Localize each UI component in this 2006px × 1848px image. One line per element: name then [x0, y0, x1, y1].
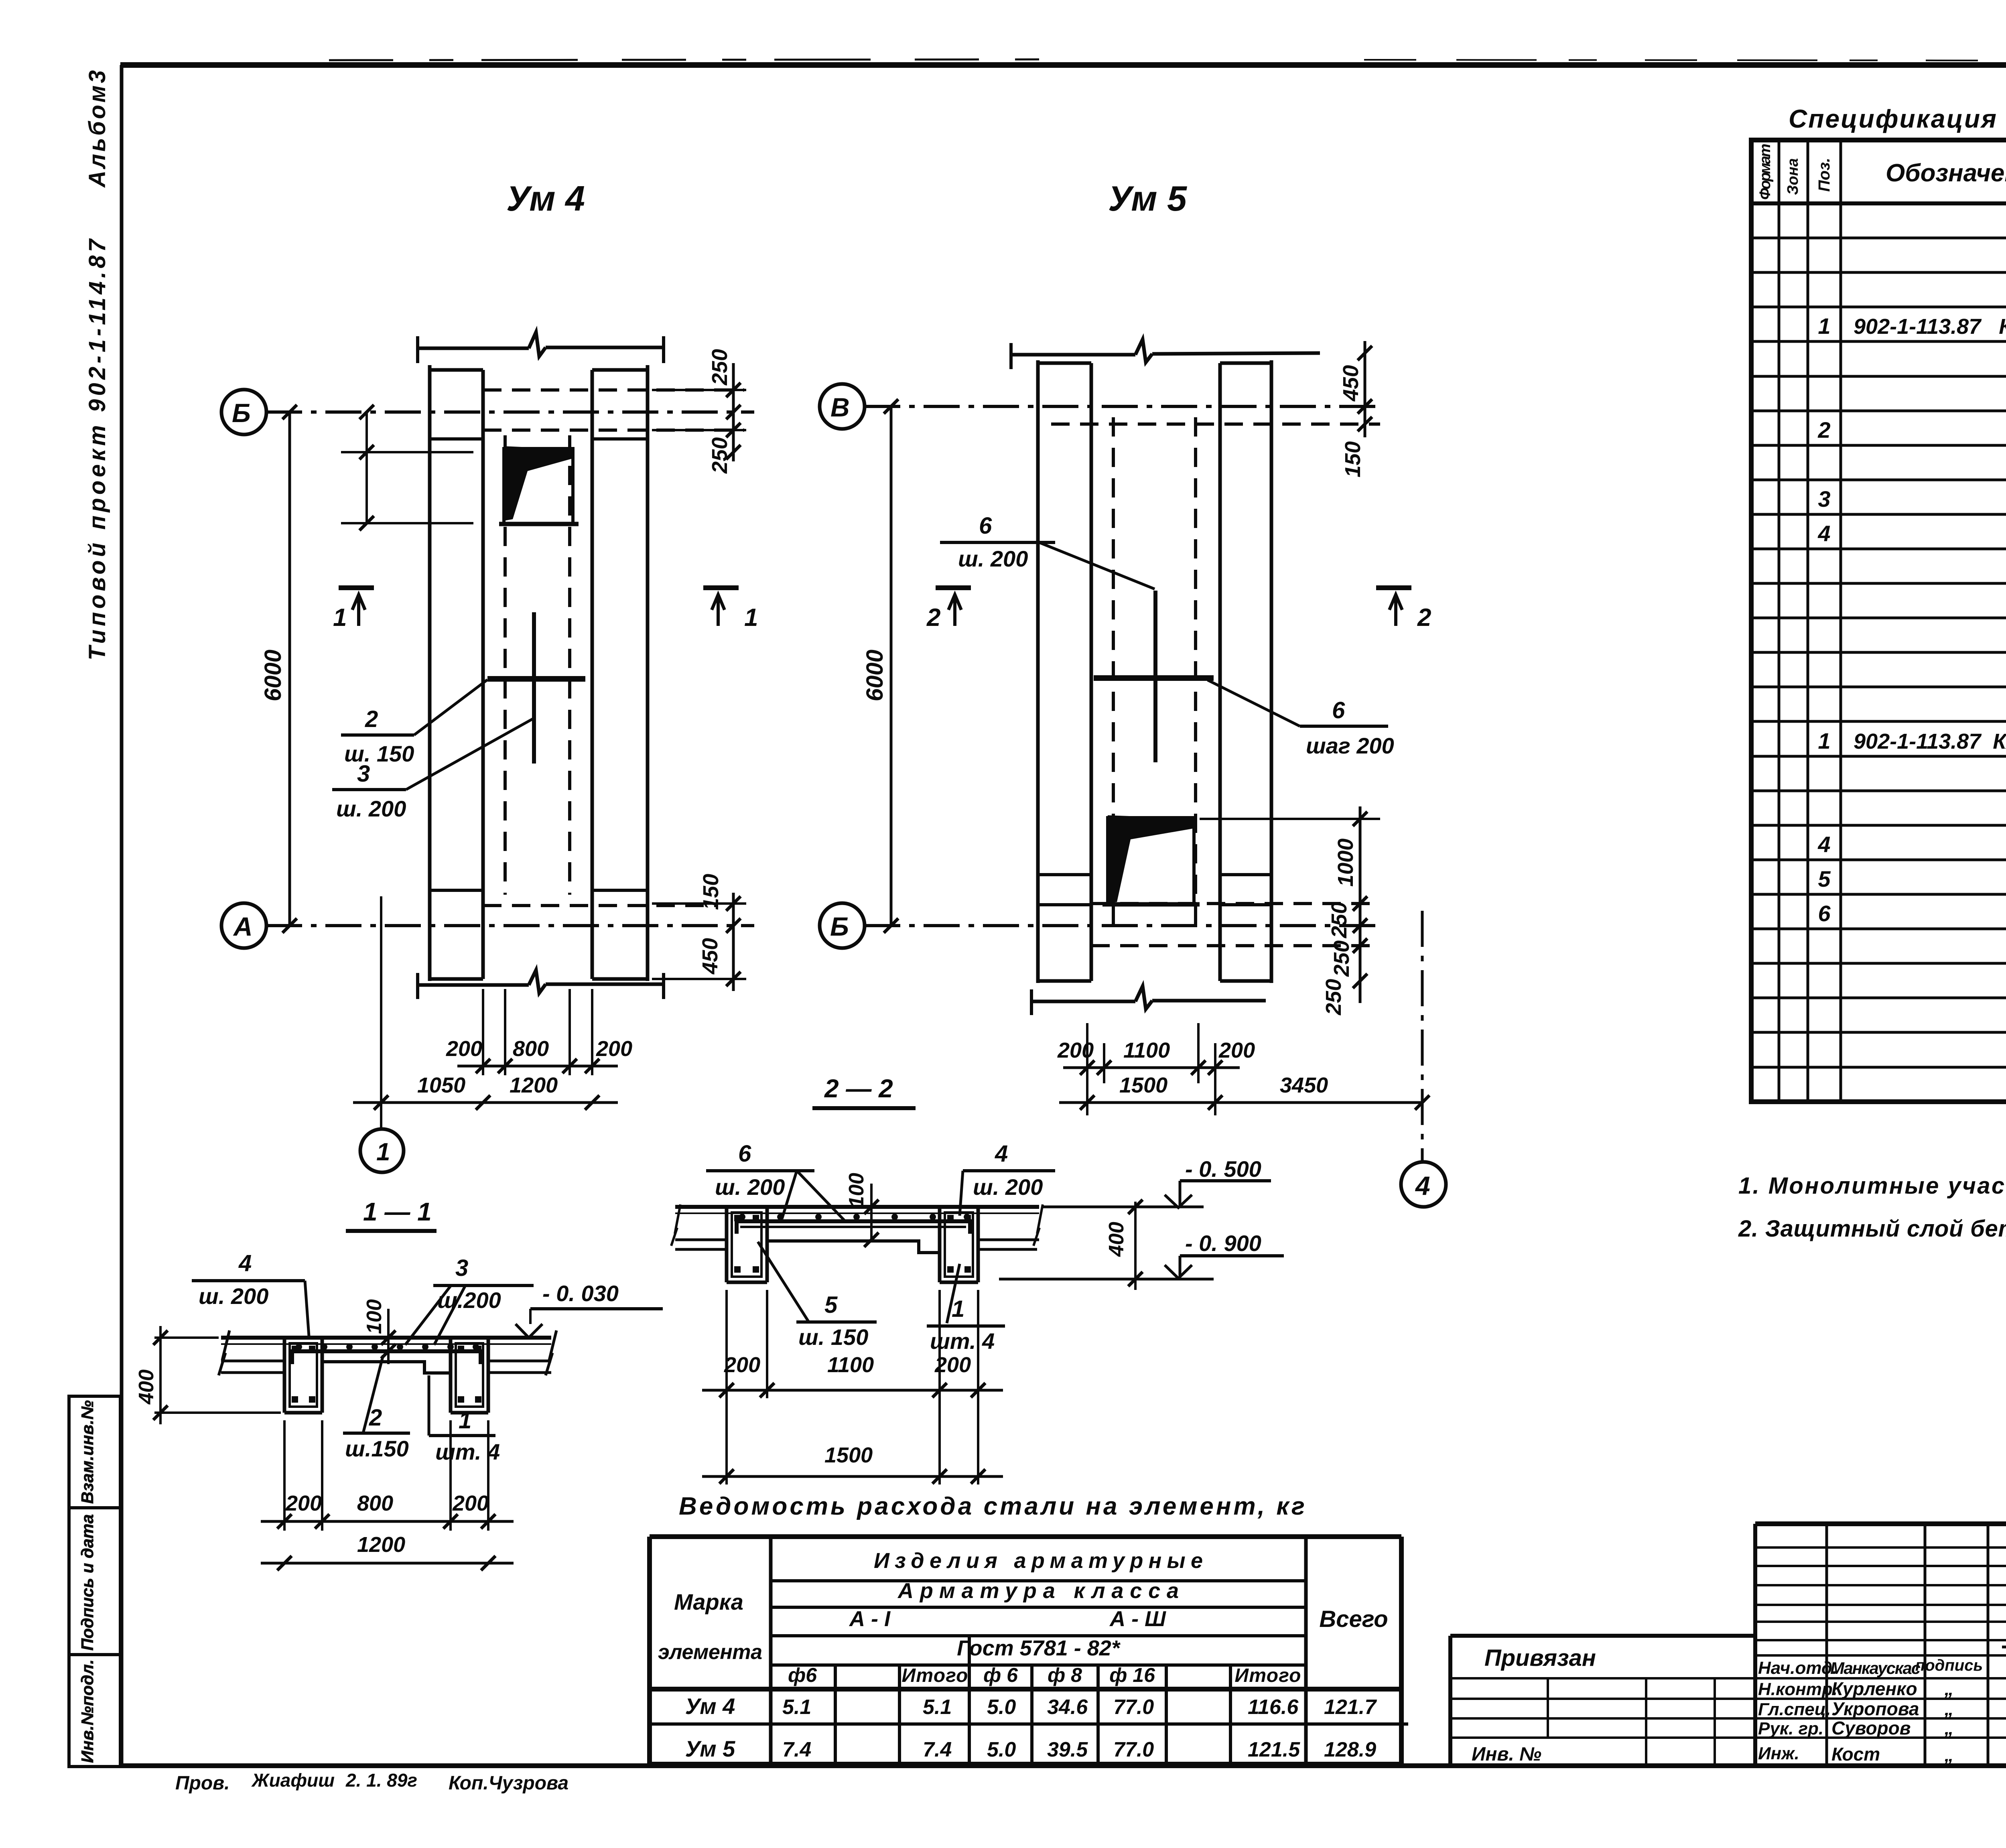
svg-text:Итого: Итого	[1235, 1665, 1301, 1686]
bottom dims 200 1100 200	[725, 1290, 728, 1484]
wedge extension dims	[341, 451, 473, 453]
title block outer	[1755, 1521, 2006, 1526]
svg-text:5: 5	[1818, 866, 1831, 892]
slab top	[675, 1205, 1039, 1209]
svg-text:Ум 4: Ум 4	[685, 1694, 735, 1719]
svg-text:Поз.: Поз.	[1815, 158, 1833, 192]
svg-text:Итого: Итого	[902, 1665, 968, 1686]
svg-text:ф 6: ф 6	[983, 1664, 1018, 1686]
svg-text:2: 2	[1817, 417, 1830, 443]
svg-text:6: 6	[1818, 901, 1831, 926]
axis circle А	[221, 903, 266, 948]
svg-text:Рук. гр.: Рук. гр.	[1758, 1719, 1823, 1738]
bottom dims 200 800 200	[283, 1420, 286, 1531]
svg-text:ш.200: ш.200	[437, 1288, 501, 1313]
dim 100	[387, 1309, 390, 1364]
rebar bars in plan	[487, 676, 585, 682]
svg-text:1: 1	[333, 604, 347, 632]
svg-text:902-1-113.87 КЖИ-2.119: 902-1-113.87 КЖИ-2.119	[1854, 729, 2006, 753]
right rib	[938, 1207, 942, 1282]
svg-text:5.0: 5.0	[987, 1696, 1016, 1719]
dim 100	[870, 1184, 873, 1242]
svg-text:А - Ш: А - Ш	[1109, 1607, 1166, 1631]
svg-text:Изделия арматурные: Изделия арматурные	[874, 1549, 1203, 1573]
svg-text:Зона: Зона	[1785, 158, 1801, 195]
svg-text:Ум 5: Ум 5	[1108, 179, 1187, 218]
left bottom stamp boxes	[69, 1396, 120, 1767]
leader 3 ш.200	[406, 718, 534, 790]
svg-text:1: 1	[744, 604, 758, 632]
leader 2 ш.150	[414, 680, 487, 735]
svg-text:6000: 6000	[862, 650, 888, 701]
section mark 2 (left)	[936, 585, 971, 590]
svg-text:121.5: 121.5	[1248, 1738, 1300, 1761]
svg-text:Формат: Формат	[1757, 144, 1774, 200]
svg-text:4: 4	[1415, 1171, 1430, 1200]
leader 6 шаг 200 (right)	[1208, 680, 1300, 726]
svg-text:250: 250	[1330, 940, 1354, 977]
svg-text:100: 100	[845, 1173, 868, 1208]
svg-text:4: 4	[238, 1250, 252, 1276]
svg-text:400: 400	[135, 1369, 158, 1405]
svg-text:- 0. 030: - 0. 030	[542, 1281, 619, 1306]
svg-text:1100: 1100	[1123, 1038, 1170, 1062]
right bottom dims 150/450	[652, 902, 746, 905]
svg-text:ш. 200: ш. 200	[973, 1174, 1043, 1200]
svg-text:200: 200	[446, 1037, 482, 1061]
axis Б line	[864, 924, 1380, 927]
svg-text:2. 1. 89г: 2. 1. 89г	[345, 1770, 417, 1791]
svg-text:ф 16: ф 16	[1109, 1664, 1155, 1686]
svg-text:4: 4	[1817, 521, 1830, 546]
hidden beam edge top (dashed)	[1051, 422, 1380, 426]
right top dims 250/250	[652, 389, 746, 391]
svg-text:Гл.спец.: Гл.спец.	[1758, 1700, 1831, 1719]
svg-text:Гост 5781 - 82*: Гост 5781 - 82*	[957, 1636, 1121, 1660]
svg-text:200: 200	[1057, 1038, 1094, 1062]
right top dims 450/150	[1276, 363, 1380, 364]
svg-text:39.5: 39.5	[1047, 1738, 1088, 1761]
dim 400	[1134, 1202, 1137, 1290]
svg-text:1: 1	[376, 1138, 390, 1166]
slab rebar	[292, 1351, 481, 1364]
dim 400 left	[154, 1336, 219, 1339]
svg-text:1: 1	[952, 1296, 964, 1322]
svg-text:ш. 200: ш. 200	[715, 1174, 785, 1200]
svg-text:5.1: 5.1	[782, 1696, 811, 1719]
left rib	[725, 1207, 729, 1282]
rebar bars in plan	[1094, 675, 1214, 681]
svg-text:200: 200	[452, 1491, 489, 1515]
svg-text:ш.150: ш.150	[345, 1436, 409, 1461]
break marks	[671, 1204, 680, 1246]
right slab outline	[1218, 363, 1222, 981]
section mark 2 (right)	[1376, 585, 1411, 590]
bottom dims 200 1100 200	[1086, 1023, 1088, 1115]
svg-text:„: „	[1944, 1698, 1954, 1719]
vedomost grid	[650, 1534, 1401, 1539]
svg-text:подпись: подпись	[1915, 1657, 1983, 1674]
axis circle 4	[1401, 1162, 1446, 1207]
svg-text:200: 200	[934, 1353, 971, 1377]
svg-text:Б: Б	[232, 398, 251, 428]
bottom dims 200 800 200	[482, 989, 484, 1075]
svg-text:2. Защитный слой бетона для ра: 2. Защитный слой бетона для рабочей арма…	[1738, 1216, 2006, 1242]
bottom dim 1200	[261, 1562, 514, 1565]
leader 6 ш.200 (top)	[1039, 542, 1155, 589]
svg-text:1200: 1200	[510, 1073, 558, 1097]
svg-text:элемента: элемента	[658, 1641, 762, 1664]
svg-text:1: 1	[1818, 728, 1830, 753]
svg-text:7.4: 7.4	[782, 1738, 811, 1761]
axis circle Б	[221, 390, 266, 435]
svg-text:7.4: 7.4	[923, 1738, 952, 1761]
svg-text:Инв.№подл.: Инв.№подл.	[78, 1659, 97, 1763]
rebar dots	[739, 1214, 745, 1220]
break marks	[219, 1330, 229, 1375]
svg-text:250: 250	[708, 349, 732, 386]
svg-text:шт. 4: шт. 4	[435, 1439, 500, 1464]
notes	[1738, 1173, 2006, 1242]
svg-text:- 0. 500: - 0. 500	[1185, 1156, 1261, 1182]
svg-text:Инв. №: Инв. №	[1472, 1744, 1541, 1765]
svg-text:1500: 1500	[1119, 1073, 1167, 1097]
svg-text:А: А	[233, 912, 253, 941]
svg-text:ш. 200: ш. 200	[336, 796, 406, 821]
svg-text:3: 3	[357, 761, 370, 787]
svg-text:450: 450	[698, 938, 722, 975]
svg-text:3: 3	[1818, 486, 1830, 512]
svg-text:800: 800	[513, 1037, 549, 1061]
axis circle В	[820, 384, 865, 429]
svg-text:800: 800	[357, 1491, 393, 1515]
svg-text:2: 2	[1417, 604, 1431, 632]
section mark 1 (left)	[339, 585, 374, 590]
monolithic wedge (filled)	[1108, 815, 1196, 903]
svg-text:450: 450	[1339, 365, 1363, 402]
svg-text:6000: 6000	[260, 650, 286, 701]
svg-text:Инж.: Инж.	[1758, 1744, 1799, 1763]
svg-text:Обозначение: Обозначение	[1886, 159, 2006, 187]
svg-text:Спецификация монолитных участк: Спецификация монолитных участков Ум4; Ум…	[1789, 104, 2006, 133]
svg-text:3450: 3450	[1280, 1073, 1328, 1097]
svg-text:6: 6	[1332, 697, 1345, 723]
right bottom dims 1000/250/250/250	[1200, 818, 1380, 820]
rebar dots	[296, 1344, 302, 1350]
svg-text:1000: 1000	[1334, 839, 1358, 887]
svg-text:200: 200	[596, 1037, 632, 1061]
svg-text:902-1-113.87 КЖИ-2.119: 902-1-113.87 КЖИ-2.119	[1854, 315, 2006, 339]
svg-text:1 — 1: 1 — 1	[363, 1197, 432, 1226]
soffits	[221, 1360, 284, 1363]
svg-text:Б: Б	[830, 912, 849, 941]
svg-text:5: 5	[824, 1292, 838, 1318]
svg-text:Типовой проект 902-1-114.87: Типовой проект 902-1-114.87	[84, 238, 110, 660]
svg-text:150: 150	[699, 874, 723, 910]
hidden beam edges top (dashed)	[483, 388, 744, 392]
svg-text:1: 1	[1818, 313, 1830, 339]
svg-text:128.9: 128.9	[1324, 1738, 1376, 1761]
left slab outline	[1036, 360, 1040, 983]
svg-text:100: 100	[363, 1299, 386, 1334]
signature grid	[1825, 1524, 1828, 1765]
left rib	[283, 1338, 286, 1413]
svg-text:Пров.: Пров.	[175, 1773, 230, 1794]
svg-text:Марка: Марка	[674, 1589, 743, 1614]
svg-text:„: „	[1944, 1718, 1954, 1738]
bottom dim 1500	[702, 1475, 1003, 1478]
svg-text:Манкаускас: Манкаускас	[1830, 1659, 1921, 1677]
svg-text:Н.контр.: Н.контр.	[1758, 1679, 1837, 1699]
soffits	[675, 1239, 727, 1241]
svg-text:200: 200	[724, 1353, 760, 1377]
axis circle Б (bottom)	[820, 903, 865, 948]
dim 6000	[288, 412, 291, 926]
svg-text:Ведомость расхода стали на эле: Ведомость расхода стали на элемент, кг	[679, 1493, 1305, 1520]
svg-text:6: 6	[738, 1141, 751, 1167]
svg-text:2: 2	[926, 604, 940, 632]
svg-text:Суворов: Суворов	[1831, 1718, 1911, 1738]
hidden rib lines (dashed verticals)	[1112, 417, 1115, 931]
bottom break dim line	[418, 970, 664, 993]
section mark 1 (right)	[703, 585, 739, 590]
svg-text:Нач.отд.: Нач.отд.	[1758, 1658, 1837, 1678]
slab top	[221, 1336, 551, 1340]
svg-text:4: 4	[1817, 832, 1830, 857]
monolithic wedge (filled)	[504, 446, 574, 521]
svg-text:200: 200	[285, 1491, 322, 1515]
svg-text:1200: 1200	[357, 1533, 405, 1557]
dim 6000	[890, 406, 893, 926]
svg-text:121.7: 121.7	[1324, 1696, 1377, 1719]
svg-text:Всего: Всего	[1319, 1606, 1388, 1632]
svg-text:Кост: Кост	[1831, 1744, 1880, 1765]
svg-text:Курленко: Курленко	[1831, 1678, 1917, 1699]
svg-text:116.6: 116.6	[1248, 1696, 1299, 1719]
svg-text:1: 1	[459, 1407, 471, 1434]
svg-text:ф 8: ф 8	[1048, 1664, 1082, 1686]
svg-text:4: 4	[995, 1141, 1008, 1167]
axis В line	[864, 405, 1380, 408]
svg-text:ф6: ф6	[788, 1664, 817, 1686]
right rib	[449, 1338, 453, 1413]
bottom handwriting row	[175, 1767, 2006, 1799]
svg-text:150: 150	[1341, 441, 1365, 477]
svg-text:ш. 200: ш. 200	[199, 1283, 268, 1309]
left margin vertical labels	[84, 70, 110, 660]
svg-text:200: 200	[1218, 1038, 1255, 1062]
svg-text:1050: 1050	[417, 1073, 465, 1097]
hidden rib lines (dashed verticals)	[504, 435, 507, 895]
svg-text:250: 250	[1327, 902, 1351, 938]
svg-text:400: 400	[1105, 1222, 1128, 1257]
svg-text:1500: 1500	[824, 1443, 873, 1467]
svg-text:Ум 4: Ум 4	[506, 179, 585, 218]
svg-text:Взам.инв.№: Взам.инв.№	[78, 1400, 97, 1504]
svg-text:77.0: 77.0	[1113, 1696, 1154, 1719]
svg-text:6: 6	[979, 513, 992, 539]
axis А line	[266, 924, 754, 927]
svg-text:3: 3	[455, 1255, 468, 1281]
svg-text:Укропова: Укропова	[1831, 1698, 1919, 1719]
svg-text:шаг 200: шаг 200	[1306, 733, 1394, 758]
svg-text:2: 2	[365, 706, 378, 732]
svg-text:77.0: 77.0	[1113, 1738, 1154, 1761]
bottom break dim line	[1031, 986, 1266, 1009]
svg-text:34.6: 34.6	[1047, 1696, 1088, 1719]
svg-text:Подпись и дата: Подпись и дата	[78, 1514, 97, 1651]
svg-text:5.1: 5.1	[923, 1696, 952, 1719]
svg-text:1. Монолитные участки замаркир: 1. Монолитные участки замаркированы на л…	[1738, 1173, 2006, 1199]
svg-text:Жиафиш: Жиафиш	[251, 1770, 335, 1791]
axis Б line	[266, 410, 754, 414]
bottom dims 1050 1200	[380, 896, 382, 1129]
bottom dims 1500 3450	[1059, 1101, 1422, 1104]
hidden beam edges bottom (dashed)	[1091, 902, 1380, 905]
svg-text:„: „	[1944, 1678, 1954, 1699]
svg-text:В: В	[830, 392, 850, 422]
svg-text:1100: 1100	[827, 1353, 874, 1377]
svg-text:Ум 5: Ум 5	[685, 1736, 736, 1761]
svg-text:ш. 150: ш. 150	[344, 741, 414, 766]
top break dim line	[1011, 339, 1320, 362]
slab rebar	[737, 1221, 970, 1234]
hidden beam edges bottom (dashed)	[483, 904, 718, 907]
svg-text:ш. 200: ш. 200	[958, 546, 1028, 571]
svg-text:А - I: А - I	[849, 1607, 891, 1631]
svg-text:250: 250	[708, 437, 732, 474]
svg-text:250: 250	[1322, 979, 1346, 1015]
left slab outline	[428, 365, 432, 981]
axis 4 line	[1421, 911, 1424, 1162]
svg-text:ш. 150: ш. 150	[798, 1324, 868, 1350]
axis circle 1	[360, 1129, 404, 1172]
svg-text:5.0: 5.0	[987, 1738, 1016, 1761]
svg-text:- 0. 900: - 0. 900	[1185, 1231, 1261, 1256]
right slab outline	[591, 370, 594, 979]
top break dim line	[418, 332, 664, 356]
svg-text:„: „	[1944, 1744, 1954, 1765]
svg-text:Привязан: Привязан	[1484, 1645, 1596, 1671]
svg-text:Коп.Чузрова: Коп.Чузрова	[449, 1773, 569, 1794]
svg-text:2 — 2: 2 — 2	[824, 1074, 893, 1103]
